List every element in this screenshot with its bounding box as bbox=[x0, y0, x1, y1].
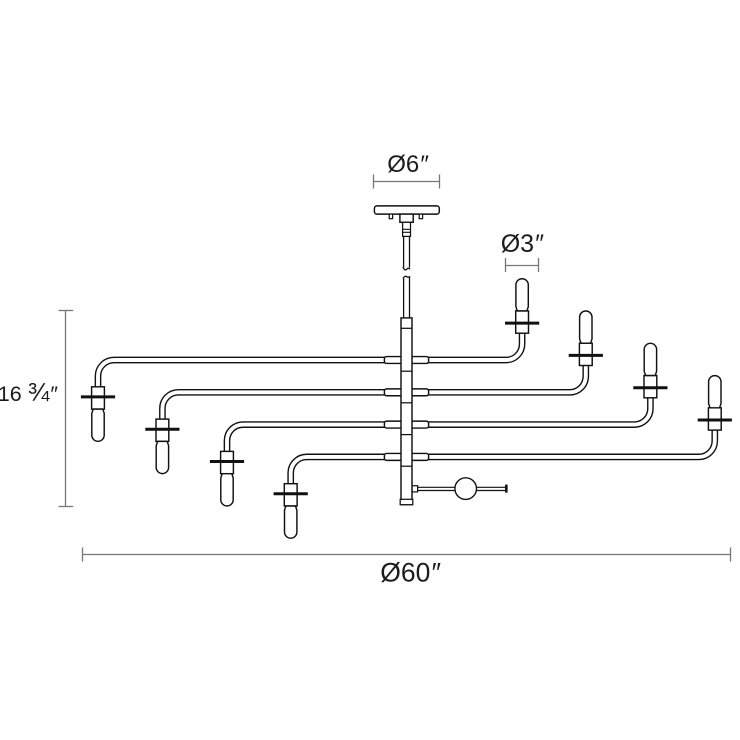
column bottom cap bbox=[400, 499, 413, 504]
arm level 4 right bbox=[411, 428, 715, 457]
canopy plate bbox=[374, 206, 439, 214]
lamp R4 bulb bbox=[709, 376, 721, 408]
sleeve level 3 right bbox=[411, 421, 429, 428]
lamp R1 socket bbox=[516, 311, 529, 333]
lamp L3 bulb bbox=[221, 474, 233, 506]
arm level 2 right bbox=[411, 364, 586, 393]
arm level 1 left bbox=[98, 360, 402, 389]
lamp R2 socket bbox=[579, 343, 592, 365]
arm level 3 left bbox=[227, 425, 402, 454]
svg-text:Ø3″: Ø3″ bbox=[501, 230, 544, 258]
lamp R1 bulb bbox=[516, 279, 528, 311]
side rod ball bbox=[455, 478, 477, 500]
canopy screw tab left bbox=[389, 214, 392, 219]
arm level 4 left bbox=[291, 457, 402, 486]
sleeve level 1 left bbox=[384, 357, 402, 364]
lamp L4 socket bbox=[284, 484, 297, 506]
dimension line 16 3/4 height bbox=[59, 311, 74, 507]
lamp L2 socket bbox=[156, 419, 169, 441]
side rod connector block bbox=[412, 486, 418, 492]
lamp L4 bulb bbox=[285, 506, 297, 538]
lamp R4 shade bar bbox=[698, 419, 732, 422]
side rod end cap bbox=[505, 485, 508, 493]
stem upper segment bbox=[403, 236, 410, 270]
lamp L1 socket bbox=[92, 387, 105, 409]
lamp R1 shade bar bbox=[505, 322, 539, 325]
canopy screw tab right bbox=[419, 214, 422, 219]
dimension line Ø60 overall width bbox=[83, 548, 731, 562]
lamp L1 shade bar bbox=[81, 395, 115, 398]
dimension line Ø6 canopy width bbox=[373, 175, 439, 189]
canopy hub bbox=[400, 214, 413, 222]
lamp R2 shade bar bbox=[569, 354, 603, 357]
sleeve level 2 right bbox=[411, 389, 429, 396]
lamp L3 shade bar bbox=[210, 460, 244, 463]
sleeve level 4 right bbox=[411, 453, 429, 460]
lamp R3 shade bar bbox=[633, 386, 667, 389]
sleeve level 2 left bbox=[384, 389, 402, 396]
lamp L2 bulb bbox=[156, 441, 168, 473]
arm level 1 right bbox=[411, 332, 522, 361]
lamp L3 socket bbox=[221, 451, 234, 473]
label 16 3/4" bbox=[0, 377, 58, 407]
lamp R2 bulb bbox=[580, 311, 592, 343]
svg-text:Ø60″: Ø60″ bbox=[380, 558, 441, 588]
label Ø3" bbox=[501, 230, 544, 258]
lamp R3 socket bbox=[644, 376, 657, 398]
svg-text:16 ¾″: 16 ¾″ bbox=[0, 377, 58, 407]
lamp R4 socket bbox=[708, 408, 721, 430]
dimension line Ø3 shade width bbox=[505, 258, 538, 272]
sleeve level 4 left bbox=[384, 453, 402, 460]
label Ø6" bbox=[387, 151, 429, 178]
central column body bbox=[401, 318, 412, 505]
lamp L4 shade bar bbox=[274, 492, 308, 495]
lamp R3 bulb bbox=[644, 343, 656, 375]
sleeve level 3 left bbox=[384, 421, 402, 428]
arm level 2 left bbox=[162, 392, 402, 421]
sleeve level 1 right bbox=[411, 357, 429, 364]
side rod bbox=[418, 487, 505, 490]
arm level 3 right bbox=[411, 396, 650, 425]
lamp L2 shade bar bbox=[145, 428, 179, 431]
lamp L1 bulb bbox=[92, 409, 104, 441]
stem collar bbox=[403, 222, 411, 236]
svg-text:Ø6″: Ø6″ bbox=[387, 151, 429, 178]
stem lower segment bbox=[403, 276, 410, 318]
label Ø60" bbox=[380, 558, 441, 588]
